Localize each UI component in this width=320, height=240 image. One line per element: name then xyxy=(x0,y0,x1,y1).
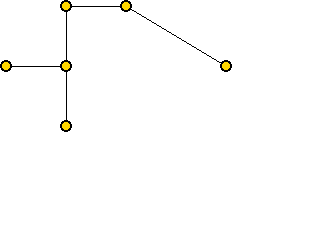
node B (top right, junction of edges A-B and B-C) xyxy=(120,0,132,12)
node A (top, junction of edges A-B and A-E) xyxy=(60,0,72,12)
node D (left, end of edge D-E) xyxy=(0,60,12,72)
wire edge D-E (horizontal, node D to node E) xyxy=(6,66,67,67)
node E (center, junction of edges A-E, D-E, E-F) xyxy=(60,60,72,72)
wire edge A-E (vertical, node A down to node E) xyxy=(66,6,67,67)
wire edge A-B (top horizontal, node A to node B) xyxy=(66,6,127,7)
node C (right, end of edge B-C) xyxy=(220,60,232,72)
node F (bottom, end of edge E-F) xyxy=(60,120,72,132)
wire edge B-C (diagonal, node B down-right to node C) xyxy=(126,6,227,67)
wire edge E-F (vertical, node E down to node F) xyxy=(66,66,67,127)
